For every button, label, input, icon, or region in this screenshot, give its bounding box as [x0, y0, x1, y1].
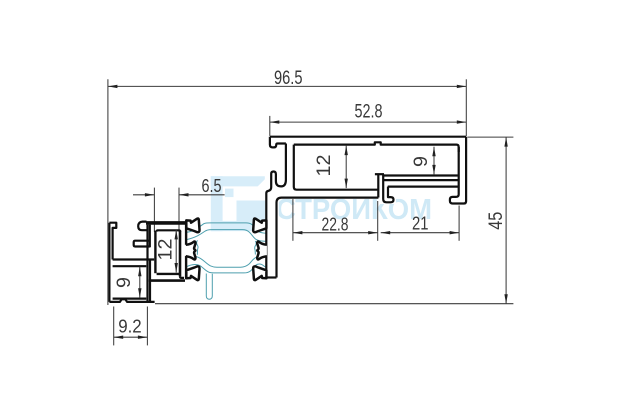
dimension 6.5 — [133, 194, 225, 196]
9-cell floor top — [383, 174, 458, 176]
dimension 12 upper — [345, 146, 347, 189]
dimension 96.5 — [108, 79, 466, 305]
cavity inner top with notch — [294, 142, 459, 152]
9-cell floor bottom — [383, 179, 458, 181]
dimension 9 upper — [433, 147, 435, 175]
12-cell floor — [157, 273, 179, 275]
finger — [134, 241, 150, 247]
top bar — [146, 221, 190, 225]
dimension 22.8 — [293, 199, 378, 241]
hooks right middle bowtie — [257, 241, 267, 259]
dimension 45 — [155, 137, 513, 304]
svg-text:9: 9 — [411, 156, 432, 167]
divider right line with foot — [383, 174, 393, 202]
9-box inner bottom — [113, 298, 147, 300]
cavity left wall and 12-cell floor — [294, 145, 379, 190]
white silhouette of lower profile — [108, 220, 191, 305]
shelf bottom line — [113, 265, 147, 267]
svg-text:22.8: 22.8 — [322, 215, 349, 235]
svg-text:96.5: 96.5 — [274, 68, 303, 89]
dimension 9 lower — [139, 267, 141, 298]
svg-text:45: 45 — [486, 212, 507, 230]
12-cell left wall — [154, 231, 156, 274]
outer left wall — [108, 223, 110, 302]
top lip — [109, 223, 116, 260]
svg-text:12: 12 — [156, 239, 177, 261]
flange top edge — [270, 136, 466, 138]
svg-text:52.8: 52.8 — [355, 101, 383, 122]
mid wall left line — [146, 225, 148, 302]
dimension 12 lower — [175, 230, 177, 273]
cell bottom link — [180, 276, 184, 278]
thermal break strip lower (polyamide, cyan) — [186, 255, 266, 273]
ledge — [149, 279, 185, 282]
svg-text:9.2: 9.2 — [118, 317, 142, 337]
dimension 21 — [381, 206, 459, 241]
gasket fin on lower strip — [206, 274, 212, 300]
white silhouette of upper profile — [265, 136, 469, 280]
svg-text:6.5: 6.5 — [202, 176, 222, 196]
lower profile (sash) outline — [109, 222, 189, 302]
thermal break strip upper (polyamide, cyan) — [186, 223, 266, 255]
hook wall lower segment — [185, 256, 187, 279]
flange left tip hook and underside — [270, 137, 286, 148]
svg-text:12: 12 — [314, 155, 335, 177]
svg-text:9: 9 — [114, 277, 135, 288]
12-cell right wall — [179, 231, 182, 277]
wall bottom — [266, 276, 276, 278]
bottom edge with notch — [109, 299, 154, 302]
upper profile (frame) outline — [266, 137, 466, 278]
divider left line — [377, 174, 379, 197]
hooks left middle bowtie — [186, 241, 196, 259]
dimension 52.8 — [270, 116, 467, 136]
hook left bottom — [186, 266, 199, 280]
wall right side and skirt line — [277, 198, 379, 278]
hook wall upper segment — [185, 224, 187, 245]
9-box right wall right line — [149, 260, 151, 302]
upper wall right line — [149, 225, 151, 248]
top bar left rounded end — [138, 222, 147, 231]
hook right bottom — [253, 266, 266, 280]
dimension 9.2 — [114, 307, 148, 346]
12-cell ceiling — [157, 230, 181, 231]
channel ceiling — [388, 186, 459, 188]
hook right top — [253, 218, 266, 232]
right wall, bottom edge, foot hook, inner wall — [450, 137, 466, 204]
hook left top — [186, 218, 199, 232]
svg-text:21: 21 — [412, 214, 429, 234]
shelf top line — [113, 258, 155, 260]
divider cap — [375, 173, 384, 175]
gasket cup and lip nub, left wall — [266, 144, 286, 278]
watermark logo mark — [211, 176, 268, 231]
extension lines of dim 6.5 (under profile) — [154, 188, 179, 232]
